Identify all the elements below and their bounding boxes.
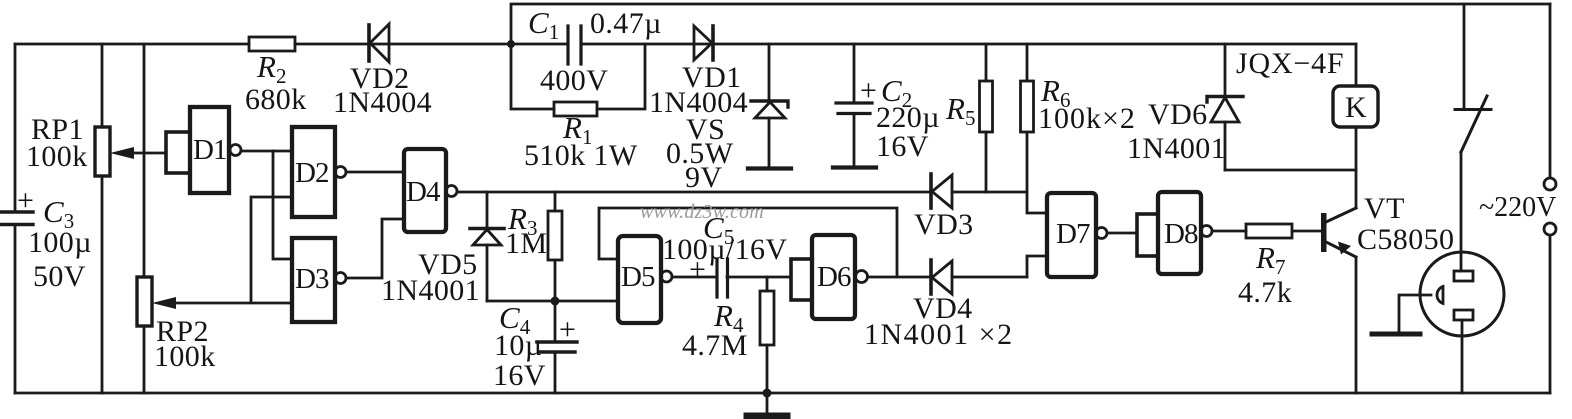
- svg-text:1M: 1M: [505, 227, 547, 260]
- terminal: 220V upper circle: [1544, 178, 1556, 190]
- wire: D7 output to D8: [1107, 232, 1137, 235]
- svg-text:D8: D8: [1164, 218, 1198, 250]
- diode VD1: [694, 26, 713, 60]
- inverter D1 input block: [166, 132, 190, 173]
- svg-text:D1: D1: [193, 134, 226, 166]
- wire: D2 output to D4: [346, 171, 404, 174]
- svg-text:VD3: VD3: [914, 208, 974, 241]
- resistor R5: [980, 44, 993, 192]
- svg-text:1N4004: 1N4004: [333, 86, 432, 119]
- wire: VD6 loop bottom to collector node: [1225, 169, 1356, 172]
- diode VD6: [1207, 44, 1243, 170]
- diode VD4: [931, 260, 952, 294]
- svg-text:+: +: [559, 313, 576, 346]
- wire: D3 output to D4: [346, 219, 404, 278]
- svg-text:R5: R5: [945, 91, 975, 130]
- relay coil K box: [1333, 86, 1378, 127]
- svg-text:100k: 100k: [26, 140, 88, 173]
- svg-text:+: +: [17, 184, 34, 217]
- wire: bus VD5/R3/C4 to D5 input y=301: [487, 300, 618, 303]
- wire: right rail x=1550: [1549, 4, 1552, 393]
- node B: junction dot R3/C4/bus (555,301): [551, 297, 560, 306]
- wire: earth prong to ground: [1399, 295, 1431, 332]
- socket XS circle: [1420, 252, 1504, 336]
- resistor R3: [548, 192, 562, 301]
- resistor R2: [249, 37, 295, 51]
- svg-text:C1: C1: [528, 5, 559, 44]
- inverter D8: [1158, 192, 1212, 274]
- svg-text:0.47µ: 0.47µ: [590, 7, 662, 40]
- capacitor C1: [568, 26, 581, 64]
- svg-text:4.7M: 4.7M: [682, 329, 748, 362]
- wire: D5 output to C5: [672, 276, 717, 279]
- wire: left rail x=15: [14, 44, 17, 393]
- svg-text:50V: 50V: [33, 260, 86, 293]
- zener VS: [751, 44, 788, 167]
- svg-text:+: +: [689, 253, 706, 286]
- svg-text:16V: 16V: [876, 130, 929, 163]
- svg-text:www.dz3w.com: www.dz3w.com: [640, 201, 764, 223]
- svg-text:1N4001: 1N4001: [381, 274, 480, 307]
- inverter D2: [292, 127, 346, 217]
- wire: C2 bottom terminal bar: [833, 165, 876, 169]
- svg-text:400V: 400V: [540, 64, 608, 97]
- svg-text:D4: D4: [406, 176, 441, 208]
- svg-text:C58050: C58050: [1357, 223, 1454, 256]
- wire: C5 to D6 input: [727, 276, 791, 279]
- svg-text:D3: D3: [295, 263, 329, 295]
- inverter D6 input block: [791, 259, 812, 300]
- svg-text:100k×2: 100k×2: [1038, 102, 1136, 135]
- transistor VT C58050: [1321, 208, 1356, 257]
- potentiometer RP2: [137, 277, 152, 326]
- potentiometer RP1: [95, 127, 110, 176]
- svg-text:510k 1W: 510k 1W: [524, 139, 638, 172]
- inverter D1: [190, 107, 241, 193]
- wire: D1 output branch down to D3 input: [273, 151, 292, 259]
- node C: junction dot R4 bottom rail (767,393): [763, 389, 772, 398]
- svg-text:9V: 9V: [685, 161, 722, 194]
- svg-text:JQX−4F: JQX−4F: [1236, 47, 1344, 80]
- svg-text:100k: 100k: [154, 340, 216, 373]
- svg-text:D7: D7: [1056, 218, 1090, 250]
- svg-text:~220V: ~220V: [1479, 192, 1556, 223]
- svg-text:100µ/16V: 100µ/16V: [662, 233, 788, 266]
- wire: VS bottom terminal bar: [748, 166, 791, 170]
- NAND gate D7: [1047, 193, 1107, 277]
- wire: VD4 net up to D7 lower input: [1027, 256, 1047, 277]
- node A: junction dot at C1 left (511,44): [507, 40, 515, 48]
- capacitor C5: [717, 259, 728, 297]
- wire: upper auxiliary rail y=4: [511, 4, 1550, 44]
- switch on mains line: [1455, 4, 1491, 152]
- capacitor C3: [1, 212, 33, 225]
- diode VD2: [369, 24, 389, 62]
- svg-text:R7: R7: [1255, 240, 1285, 279]
- wire: R7 to VT base: [1292, 230, 1321, 233]
- wire: R1 loop: [511, 44, 645, 109]
- svg-text:D6: D6: [817, 261, 851, 293]
- svg-text:VT: VT: [1364, 192, 1405, 225]
- socket bottom slot: [1454, 310, 1473, 320]
- wire: bottom rail y=393: [15, 392, 1550, 395]
- wire: RP2 wiper wire to D3/D2 net: [152, 197, 292, 309]
- resistor R7: [1246, 224, 1292, 238]
- terminal: 220V lower circle: [1544, 223, 1556, 235]
- svg-text:+: +: [860, 74, 877, 107]
- wire: RP1 wiper to D1 input: [110, 147, 166, 159]
- diode VD3: [931, 174, 952, 208]
- inverter D5: [618, 236, 672, 323]
- inverter D6: [812, 235, 868, 319]
- inverter D8 input block: [1137, 214, 1158, 256]
- svg-text:1N4001: 1N4001: [1127, 132, 1226, 165]
- inverter D3: [292, 238, 346, 322]
- wire: RP2 branch vertical x=144: [143, 44, 146, 393]
- svg-text:100µ: 100µ: [28, 226, 92, 259]
- resistor R1: [554, 102, 597, 116]
- resistor R4: [760, 277, 774, 393]
- svg-text:VD6: VD6: [1148, 98, 1208, 131]
- capacitor C2: [836, 44, 872, 165]
- wire: D5/D6 feedback loop: [599, 208, 897, 277]
- socket top slot: [1454, 271, 1473, 281]
- svg-text:K: K: [1345, 91, 1367, 124]
- wire: top main rail y=44: [15, 43, 1356, 46]
- svg-text:1N4001 ×2: 1N4001 ×2: [864, 318, 1014, 351]
- capacitor C4: [537, 301, 577, 393]
- wire: VT collector up to relay K: [1355, 127, 1358, 208]
- svg-text:16V: 16V: [493, 359, 546, 392]
- NAND gate D4: [404, 149, 457, 232]
- wire: D8 output to R7: [1212, 230, 1246, 233]
- svg-text:680k: 680k: [245, 83, 307, 116]
- ground: bar at socket: [1372, 332, 1420, 337]
- wire: switch to socket top slot: [1460, 152, 1463, 271]
- svg-text:4.7k: 4.7k: [1238, 276, 1292, 309]
- resistor R6: [1021, 44, 1048, 213]
- svg-text:10µ: 10µ: [494, 329, 543, 362]
- wire: RP1 branch vertical x=102: [101, 44, 104, 393]
- svg-text:D5: D5: [621, 261, 655, 293]
- svg-text:D2: D2: [295, 157, 328, 189]
- socket earth prong: [1437, 287, 1443, 304]
- wire: socket bottom to rail: [1461, 320, 1464, 393]
- wire: VT emitter down to bottom rail: [1355, 257, 1358, 393]
- wire: D6 output to VD4: [868, 276, 1027, 279]
- wire: D1 output to D2 input: [241, 150, 292, 153]
- wire: relay K from top rail: [1355, 44, 1358, 86]
- ground: earth bar under R4: [747, 393, 787, 416]
- diode VD5: [470, 192, 504, 301]
- wire: D4 output long rail y=192: [457, 191, 1027, 194]
